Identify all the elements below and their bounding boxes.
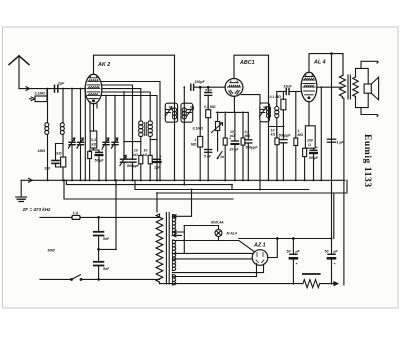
speaker field terminal bottom [361, 108, 378, 117]
svg-text:500µµF: 500µµF [279, 134, 292, 138]
AZ1 anode tap upper [172, 252, 252, 254]
heater tap 4 [172, 234, 181, 237]
wire det to AL4 grid [277, 91, 286, 93]
svg-text:500µµF: 500µµF [127, 164, 140, 168]
svg-text:AZ 1: AZ 1 [253, 243, 266, 249]
electrolytic 50uF second [328, 254, 335, 283]
bus4 drop to transformer [156, 193, 158, 212]
fuse 1A [72, 215, 80, 219]
rail bus4 to B+ [333, 193, 335, 239]
trimmer in can B [187, 107, 194, 117]
electrolytic 50uF AK2 [96, 152, 103, 180]
can A column through [174, 98, 176, 181]
tube AZ1 envelope [252, 250, 268, 266]
antenna [9, 56, 29, 89]
coil det primary on column [266, 107, 270, 118]
potentiometer [212, 112, 223, 151]
svg-text:kΩ: kΩ [143, 153, 148, 157]
wire below box A [140, 164, 142, 181]
node filter [98, 249, 100, 251]
resistor small AK2 [88, 152, 92, 181]
electrolytic 50uF AL4 [310, 148, 317, 180]
bus 5 [64, 180, 233, 199]
resistor 0,2M ABC1 [241, 112, 245, 180]
ABC1 internal electrodes [228, 81, 241, 94]
svg-text:5nF: 5nF [103, 267, 110, 271]
oscillator transformer core [145, 123, 147, 136]
output transformer core [348, 75, 350, 99]
svg-text:AK 2: AK 2 [97, 62, 110, 68]
coil det secondary [275, 107, 279, 118]
svg-text:MΩ: MΩ [298, 133, 304, 137]
trimmer in can A [165, 107, 172, 117]
transformer bottom link [159, 282, 161, 284]
B+ bus [239, 238, 332, 240]
svg-text:1MΩ: 1MΩ [38, 149, 46, 153]
svg-text:AL 4: AL 4 [313, 60, 326, 66]
resistor 1M AL4 grid leak [294, 92, 298, 181]
can B column through [183, 87, 185, 184]
heater tap 2 lamp feed [184, 225, 218, 227]
filter mid tap [99, 180, 116, 249]
wire antenna to AK2 grid [19, 88, 85, 90]
AK2 third column [96, 104, 98, 108]
output transformer primary winding [339, 54, 345, 98]
band switch lever [217, 152, 222, 160]
electrolytic 20uF ABC1 [231, 141, 238, 180]
svg-text:10nF: 10nF [284, 85, 293, 89]
svg-text:kΩ: kΩ [271, 133, 276, 137]
transformer rectifier heater winding [172, 275, 175, 286]
coil L2 [60, 123, 64, 135]
svg-text:500µµF: 500µµF [246, 146, 259, 150]
svg-text:0,1MΩ: 0,1MΩ [35, 92, 46, 96]
bottom arrow [334, 282, 338, 286]
svg-text:1: 1 [195, 138, 197, 142]
coil in can B on column [182, 108, 186, 119]
AK2 side wire long [102, 96, 158, 181]
node on AL4 top line [331, 53, 333, 55]
speaker magnet box [364, 84, 371, 93]
wire to ABC1 [194, 86, 226, 88]
svg-text:0,2: 0,2 [91, 138, 96, 142]
AK2 side wire to osc cap column [102, 85, 133, 142]
antenna input connector arrow [26, 87, 30, 91]
wire below 10k [224, 145, 226, 180]
capacitor 5nF [205, 87, 212, 110]
speaker cone [371, 77, 378, 100]
capacitor 1uF on rail [327, 139, 335, 142]
svg-text:5nF: 5nF [103, 237, 110, 241]
heater riser [183, 226, 185, 254]
electrolytic 50uF first [290, 239, 297, 284]
svg-text:MΩ: MΩ [191, 143, 197, 147]
capacitor 5nF upper [94, 232, 104, 236]
AL4 screen drop [320, 87, 322, 180]
padder trimmer col 124 [120, 92, 128, 180]
speaker field terminal top [361, 61, 378, 68]
wire junction dots [47, 88, 270, 191]
svg-text:100pF: 100pF [195, 80, 206, 84]
svg-text:kΩ: kΩ [92, 143, 97, 147]
svg-text:50: 50 [287, 250, 291, 254]
mains line 1 [40, 215, 160, 217]
coil L1 [45, 123, 49, 135]
ground bus [21, 179, 345, 181]
tube ABC1 envelope [225, 79, 243, 97]
svg-text:kΩ: kΩ [133, 153, 138, 157]
coil in can A on column [172, 108, 176, 119]
trimmer capacitor C3 [68, 89, 75, 181]
output transformer secondary / speaker loop left [353, 76, 358, 98]
resistor 10k det [275, 138, 279, 145]
bottom return line [160, 283, 303, 285]
wire column x63 [62, 89, 64, 181]
node electrolytic 1 [293, 238, 295, 240]
heater return line [174, 241, 255, 252]
heater riser 2 [191, 190, 193, 217]
ABC1 cathode column [233, 96, 235, 112]
svg-text:1kΩ: 1kΩ [55, 152, 62, 156]
resistor 10k osc B [148, 155, 152, 180]
svg-text:+: + [229, 137, 231, 141]
node B+ left [277, 238, 279, 240]
svg-text:2pF: 2pF [57, 82, 65, 86]
capacitor 10nF coupling AL4 [286, 89, 301, 95]
smoothing resistor zigzag [303, 280, 320, 288]
speaker loop [356, 68, 369, 107]
svg-text:µF: µF [295, 250, 301, 254]
resistor 10k osc A [139, 155, 143, 163]
svg-text:0,1 MΩ: 0,1 MΩ [204, 105, 216, 109]
ABC1 column center [234, 112, 236, 141]
heater tap 3 [172, 231, 184, 234]
capacitor 500pF ABC1 [245, 112, 252, 180]
detector can C [260, 103, 270, 122]
svg-text:µF: µF [333, 250, 339, 254]
transformer HV winding [172, 240, 175, 271]
link coil B to electro col [150, 139, 157, 141]
svg-text:50 µF: 50 µF [95, 159, 105, 163]
trimmer in can C [260, 107, 267, 117]
svg-text:ZF = 473 kHz: ZF = 473 kHz [22, 207, 52, 212]
wire below grid resistor [207, 118, 209, 181]
bottom line to arrow [320, 283, 338, 285]
det secondary column [276, 92, 278, 139]
resistor 0,1M AL4 grid [281, 92, 286, 127]
wire ABC1 to det can [241, 95, 260, 104]
svg-text:ABC1: ABC1 [239, 60, 255, 66]
capacitor 2pF (series) [55, 85, 58, 92]
svg-text:0,1MΩ: 0,1MΩ [192, 127, 203, 131]
electrolytic 1uF [154, 159, 161, 162]
ground bus arrow [29, 178, 33, 182]
svg-text:Ω: Ω [307, 143, 311, 147]
trimmer capacitor C5 [102, 96, 109, 181]
can C left drop [259, 122, 261, 190]
resistor grid leak box [61, 157, 66, 167]
svg-text:5 nF: 5 nF [204, 155, 212, 159]
AK2 internal electrodes [87, 76, 100, 102]
svg-text:1 µF: 1 µF [337, 141, 345, 145]
osc link wire [124, 141, 141, 143]
svg-text:6V/0,4A: 6V/0,4A [211, 221, 224, 225]
capacitor 5nF lower [94, 262, 104, 266]
AK2 grid2 column [93, 104, 95, 131]
AK2 cathode column [89, 102, 91, 132]
power transformer core [166, 213, 169, 285]
AZ1 anode tap lower [172, 258, 252, 260]
rectifier heater taps [172, 264, 263, 277]
node junction 2 [207, 86, 209, 88]
resistor 1M AVC [198, 136, 203, 147]
heater tap 1 [172, 215, 191, 218]
column 10k from AVC line [224, 112, 226, 138]
right rail from output transformer [342, 98, 344, 285]
AVC line [216, 111, 248, 113]
smoothing resistor bar [303, 273, 320, 275]
wire AVC column [199, 87, 201, 136]
wire below 1M [199, 147, 201, 180]
capacitor 5nF lower [205, 150, 212, 153]
svg-text:100: 100 [44, 167, 50, 171]
grid1 column [84, 89, 86, 181]
oscillator coil A [139, 121, 143, 156]
capacitor 100 grid [52, 161, 63, 168]
node mains1 [98, 217, 100, 219]
right rail from AL4 top line [331, 54, 333, 255]
resistor 0,2k below left [303, 148, 307, 180]
capacitor 500uuF osc [129, 142, 136, 181]
ground symbol [16, 197, 27, 202]
wire AK2 anode drop [102, 82, 160, 181]
svg-text:50 µF: 50 µF [309, 156, 319, 160]
ABC1 top cap wire [234, 55, 269, 78]
resistor R antenna 0,1 M [30, 89, 48, 102]
AL4 cathode column [308, 102, 310, 126]
svg-text:10: 10 [143, 149, 147, 153]
resistor AK2 cathode [90, 131, 97, 148]
tube AL4 envelope [301, 72, 317, 101]
ground drop [20, 180, 22, 197]
bus junction dots [46, 86, 332, 284]
IF transformer can A [165, 103, 177, 122]
AL4 internal electrodes [303, 75, 315, 99]
det primary column through [269, 55, 285, 180]
svg-text:50: 50 [325, 250, 329, 254]
mains line 2 with switch [40, 278, 99, 280]
svg-text:50W: 50W [48, 249, 56, 253]
oscillator coil B [148, 121, 152, 156]
svg-text:Eumig 1133: Eumig 1133 [362, 134, 373, 187]
supply bus 4 [157, 180, 347, 193]
svg-text:+: + [316, 146, 318, 150]
svg-text:1 A: 1 A [73, 211, 79, 215]
heater bus 3 [135, 180, 309, 189]
svg-text:5 nF: 5 nF [205, 89, 213, 93]
AK2 side wire to osc coil B [102, 92, 151, 121]
heater bus 2 [66, 180, 232, 189]
cathode resistor 100 ohm box [305, 126, 315, 148]
capacitor 100pF coupling [191, 84, 194, 90]
AZ1 cathode output [268, 239, 278, 258]
svg-text:10: 10 [134, 149, 138, 153]
AL4 top cap wire with rail junction [309, 54, 343, 73]
resistor 10k ABC1 [223, 138, 227, 145]
capacitor 500pF det [280, 127, 287, 181]
svg-text:+: + [334, 262, 336, 266]
transformer heater winding top [172, 215, 175, 236]
line filter column [98, 217, 100, 279]
node junction [199, 86, 201, 88]
svg-text:0,1 MΩ: 0,1 MΩ [270, 95, 282, 99]
mains switch [71, 275, 82, 281]
AZ1 internal anodes [256, 253, 264, 263]
resistor 0,1 M grid [206, 110, 211, 118]
trimmer capacitor C4 [77, 89, 84, 181]
AL4 anode wire to output transformer [317, 86, 343, 88]
AK2 side wire to osc coil A [102, 89, 141, 121]
mains line 2 to transformer [99, 278, 160, 280]
svg-text:+: + [296, 262, 298, 266]
node mains2 [98, 279, 100, 281]
svg-text:20 µF: 20 µF [229, 148, 240, 152]
trimmer capacitor C6 [111, 96, 118, 181]
grid RC branch wire [56, 144, 64, 161]
svg-text:M AL4: M AL4 [227, 232, 237, 236]
svg-text:1n: 1n [220, 155, 224, 159]
wire det secondary to bus [276, 127, 278, 181]
wire column x47.5 [47, 89, 49, 181]
tube AK2 envelope [85, 74, 102, 104]
AK2 top cap wire [94, 55, 175, 97]
power transformer primary [156, 214, 163, 282]
svg-text:MΩ: MΩ [245, 134, 251, 138]
pilot lamp M AL4 [215, 226, 222, 241]
cathode split wires [90, 148, 99, 152]
svg-text:100: 100 [307, 139, 313, 143]
IF transformer can B [181, 103, 193, 122]
